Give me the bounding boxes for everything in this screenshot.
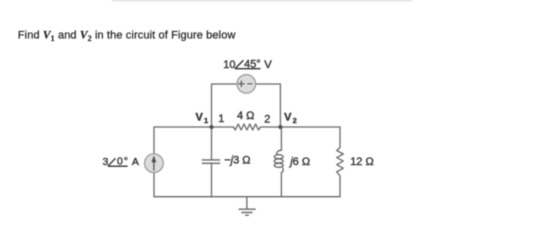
svg-text:1: 1: [204, 116, 208, 125]
svg-text:1: 1: [218, 113, 224, 125]
svg-text:12 Ω: 12 Ω: [350, 156, 374, 168]
svg-text:−j3 Ω: −j3 Ω: [224, 155, 250, 167]
svg-text:2: 2: [264, 114, 270, 126]
svg-text:V: V: [284, 112, 292, 124]
svg-text:j6 Ω: j6 Ω: [288, 156, 310, 168]
svg-text:10: 10: [223, 59, 235, 71]
svg-text:3: 3: [103, 156, 109, 168]
svg-text:V: V: [264, 59, 272, 71]
svg-text:Find V1 and V2 in the circuit: Find V1 and V2 in the circuit of Figure …: [18, 30, 236, 44]
svg-text:V: V: [196, 112, 204, 124]
svg-text:4 Ω: 4 Ω: [237, 110, 254, 122]
svg-text:A: A: [132, 156, 139, 168]
svg-text:2: 2: [293, 116, 297, 125]
